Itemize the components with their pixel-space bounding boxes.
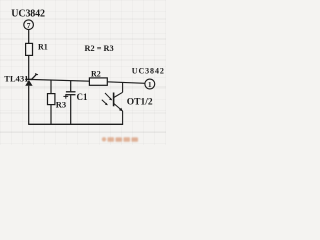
wire C1 to bottom rail bbox=[70, 95, 72, 124]
resistor R2 bbox=[89, 78, 107, 85]
svg-text:OT1/2: OT1/2 bbox=[127, 97, 153, 107]
svg-text:1: 1 bbox=[148, 80, 152, 89]
svg-text:C1: C1 bbox=[77, 92, 88, 102]
TL431 cathode bar bbox=[25, 78, 32, 80]
wire: R2 to pin1 circle bbox=[107, 82, 145, 84]
TL431 reference pin line bbox=[31, 74, 36, 80]
wire TL431 anode to bottom rail bbox=[28, 86, 30, 125]
svg-text:TL431: TL431 bbox=[4, 75, 28, 84]
pin 7 circle bbox=[24, 20, 34, 30]
svg-text:7: 7 bbox=[27, 21, 31, 30]
svg-text:UC3842: UC3842 bbox=[132, 67, 165, 76]
svg-text:R2 = R3: R2 = R3 bbox=[85, 44, 114, 53]
wire C1 drop from main net bbox=[70, 81, 72, 92]
optocoupler collector diagonal bbox=[114, 92, 123, 97]
pin 1 circle bbox=[145, 79, 155, 89]
optocoupler light arrow 1 bbox=[105, 93, 112, 100]
svg-text:UC3842: UC3842 bbox=[11, 8, 45, 19]
paper background bbox=[0, 0, 166, 145]
watermark (orange logo) bbox=[102, 137, 138, 142]
resistor R3 bbox=[48, 94, 55, 105]
C1 plus sign bbox=[63, 95, 68, 97]
svg-text:R2: R2 bbox=[91, 69, 101, 78]
wire R3 drop from main net bbox=[50, 80, 52, 94]
bottom ground rail wire bbox=[28, 123, 123, 125]
optocoupler base bar bbox=[113, 93, 115, 107]
wire R3 to bottom rail bbox=[50, 105, 52, 125]
optocoupler emitter wire bbox=[122, 111, 124, 124]
svg-text:R1: R1 bbox=[38, 42, 48, 51]
wire R1 to TL431 cathode bbox=[28, 55, 30, 79]
wire: main horizontal net (TL431 cathode to R2) bbox=[32, 80, 89, 82]
TL431 anode triangle bbox=[25, 80, 32, 86]
svg-text:R3: R3 bbox=[56, 100, 66, 110]
optocoupler emitter diagonal with arrow bbox=[114, 104, 123, 112]
optocoupler light arrow 2 bbox=[102, 100, 107, 105]
resistor R1 bbox=[26, 43, 33, 55]
optocoupler OT1/2 collector wire bbox=[122, 82, 124, 92]
wire pin7 to R1 bbox=[28, 30, 30, 44]
capacitor C1 plates bbox=[66, 91, 76, 93]
